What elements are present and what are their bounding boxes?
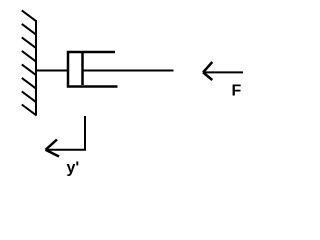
damper piston [81, 53, 84, 85]
svg-text:F: F [232, 83, 242, 100]
svg-text:y': y' [67, 160, 80, 177]
wall hatch 6 [22, 78, 37, 89]
wall hatch 2 [22, 24, 37, 35]
wall [35, 20, 37, 116]
force arrow F (pointing left) [203, 62, 243, 80]
wall hatch 3 [22, 37, 37, 48]
damper cylinder (open right) [68, 52, 118, 87]
wire: rod from wall to damper cylinder [36, 70, 68, 72]
wire: piston rod to the right [83, 70, 174, 72]
wall hatch 8 [22, 105, 37, 116]
y' axis (horizontal segment with left arrowhead) [46, 140, 87, 157]
wall hatch 4 [22, 51, 37, 62]
y' axis (vertical segment) [84, 116, 86, 151]
wall hatch 1 [22, 10, 37, 21]
wall hatch 5 [22, 64, 37, 75]
wall hatch 7 [22, 91, 37, 102]
